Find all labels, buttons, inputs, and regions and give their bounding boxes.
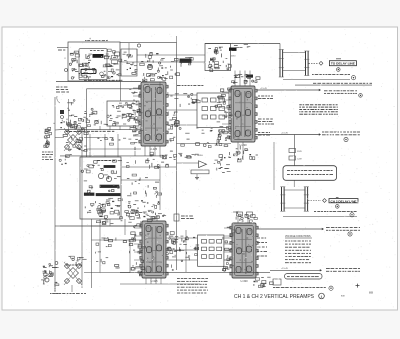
svg-text:4250: 4250 — [231, 56, 237, 58]
svg-text:CH 1 & CH 2 VERTICAL PREAMPS: CH 1 & CH 2 VERTICAL PREAMPS — [234, 294, 315, 300]
svg-text:4: 4 — [321, 295, 323, 299]
svg-text:U-330: U-330 — [240, 279, 248, 283]
svg-text:+15.4V: +15.4V — [281, 132, 289, 134]
svg-text:CH 2 DELAY LINE: CH 2 DELAY LINE — [331, 199, 357, 203]
svg-text:TO DELAY LINE: TO DELAY LINE — [331, 62, 355, 66]
svg-text:U-125: U-125 — [150, 147, 158, 151]
svg-text:VOLTAGE CONDITIONS: VOLTAGE CONDITIONS — [285, 235, 311, 238]
svg-text:+15.4V: +15.4V — [281, 268, 289, 270]
svg-text:808: 808 — [369, 291, 374, 294]
svg-text:+: + — [89, 37, 91, 41]
svg-text:U-230: U-230 — [239, 143, 247, 147]
svg-text:U-325: U-325 — [150, 279, 158, 283]
svg-text:+: + — [53, 121, 55, 125]
svg-text:+15.4V: +15.4V — [260, 88, 268, 90]
svg-text:+1 LEVEL: +1 LEVEL — [194, 155, 204, 157]
